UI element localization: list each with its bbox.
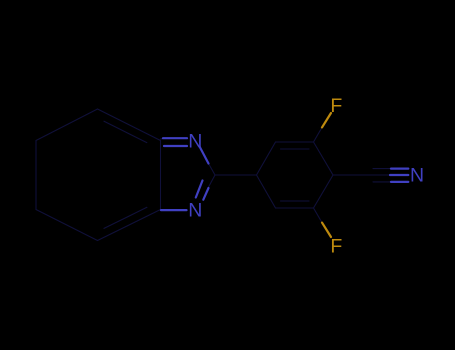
wire C3p-C2p (top edge) [276, 141, 314, 143]
bond C2=N3 main bright half [203, 188, 208, 200]
svg-text:N: N [188, 131, 202, 153]
bond C2=N3 inner tick (bright, inside ring) [196, 181, 203, 198]
wire C3a-C7a (ring fusion vertical) [160, 141, 162, 210]
double bond tick C7a=C7 inner [104, 121, 147, 142]
triple bond C#N main line bright half [390, 174, 408, 176]
bond N1-C2 bright half [200, 147, 209, 164]
wire C5p-C4p (lower left diagonal) [257, 175, 276, 208]
nitrile C1p-Cn single bond (dark) [333, 174, 372, 176]
double bond N1=C7a inner tick (bright) [164, 145, 187, 147]
wire C2-N3 dark half [208, 175, 215, 188]
svg-text:N: N [188, 200, 202, 222]
triple bond upper line dark half [373, 168, 391, 170]
wire C6-C5 (left vertical edge) [35, 141, 37, 210]
svg-text:N: N [410, 165, 424, 187]
wire C7a-C7 (upper right diagonal) [98, 109, 161, 141]
double bond tick C3p=C2p inner [281, 148, 310, 150]
bond C2-C4prime (bridge, dark) [215, 174, 257, 176]
wire C5-C4 (lower left diagonal) [36, 210, 98, 241]
svg-text:F: F [330, 236, 342, 258]
double bond tick C6p=C5p inner [281, 200, 310, 202]
double bond N1=C7a main (bright) [163, 137, 187, 139]
wire C6p-C5p (bottom edge) [276, 207, 314, 209]
wire C2p-C1p (upper right diagonal) [314, 142, 334, 175]
bond N3-C3a bright [161, 209, 187, 211]
wire C1p-C6p (lower right diagonal) [314, 175, 334, 208]
wire C7-C6 (upper left diagonal) [36, 109, 98, 141]
C-F bond top: orange half [322, 113, 331, 127]
triple bond C#N main line dark half [372, 174, 390, 176]
triple bond lower line bright half [391, 181, 408, 183]
C-F bond bottom: orange half [322, 223, 331, 237]
wire N3-C3a gap segment [160, 209, 163, 211]
triple bond lower line dark half [373, 181, 391, 183]
svg-text:F: F [330, 95, 342, 117]
triple bond upper line bright half [391, 168, 408, 170]
wire C4-C3a (lower right diagonal) [98, 210, 161, 241]
C-F bond bottom: dark half [314, 208, 323, 223]
C-F bond top: dark half [314, 127, 323, 142]
wire C7a-N1 gap segment [161, 138, 164, 141]
wire C4p-C3p (upper left diagonal) [257, 142, 276, 175]
wire N1-C2 dark half [209, 164, 216, 176]
double bond tick C4=C3a inner [104, 207, 147, 228]
